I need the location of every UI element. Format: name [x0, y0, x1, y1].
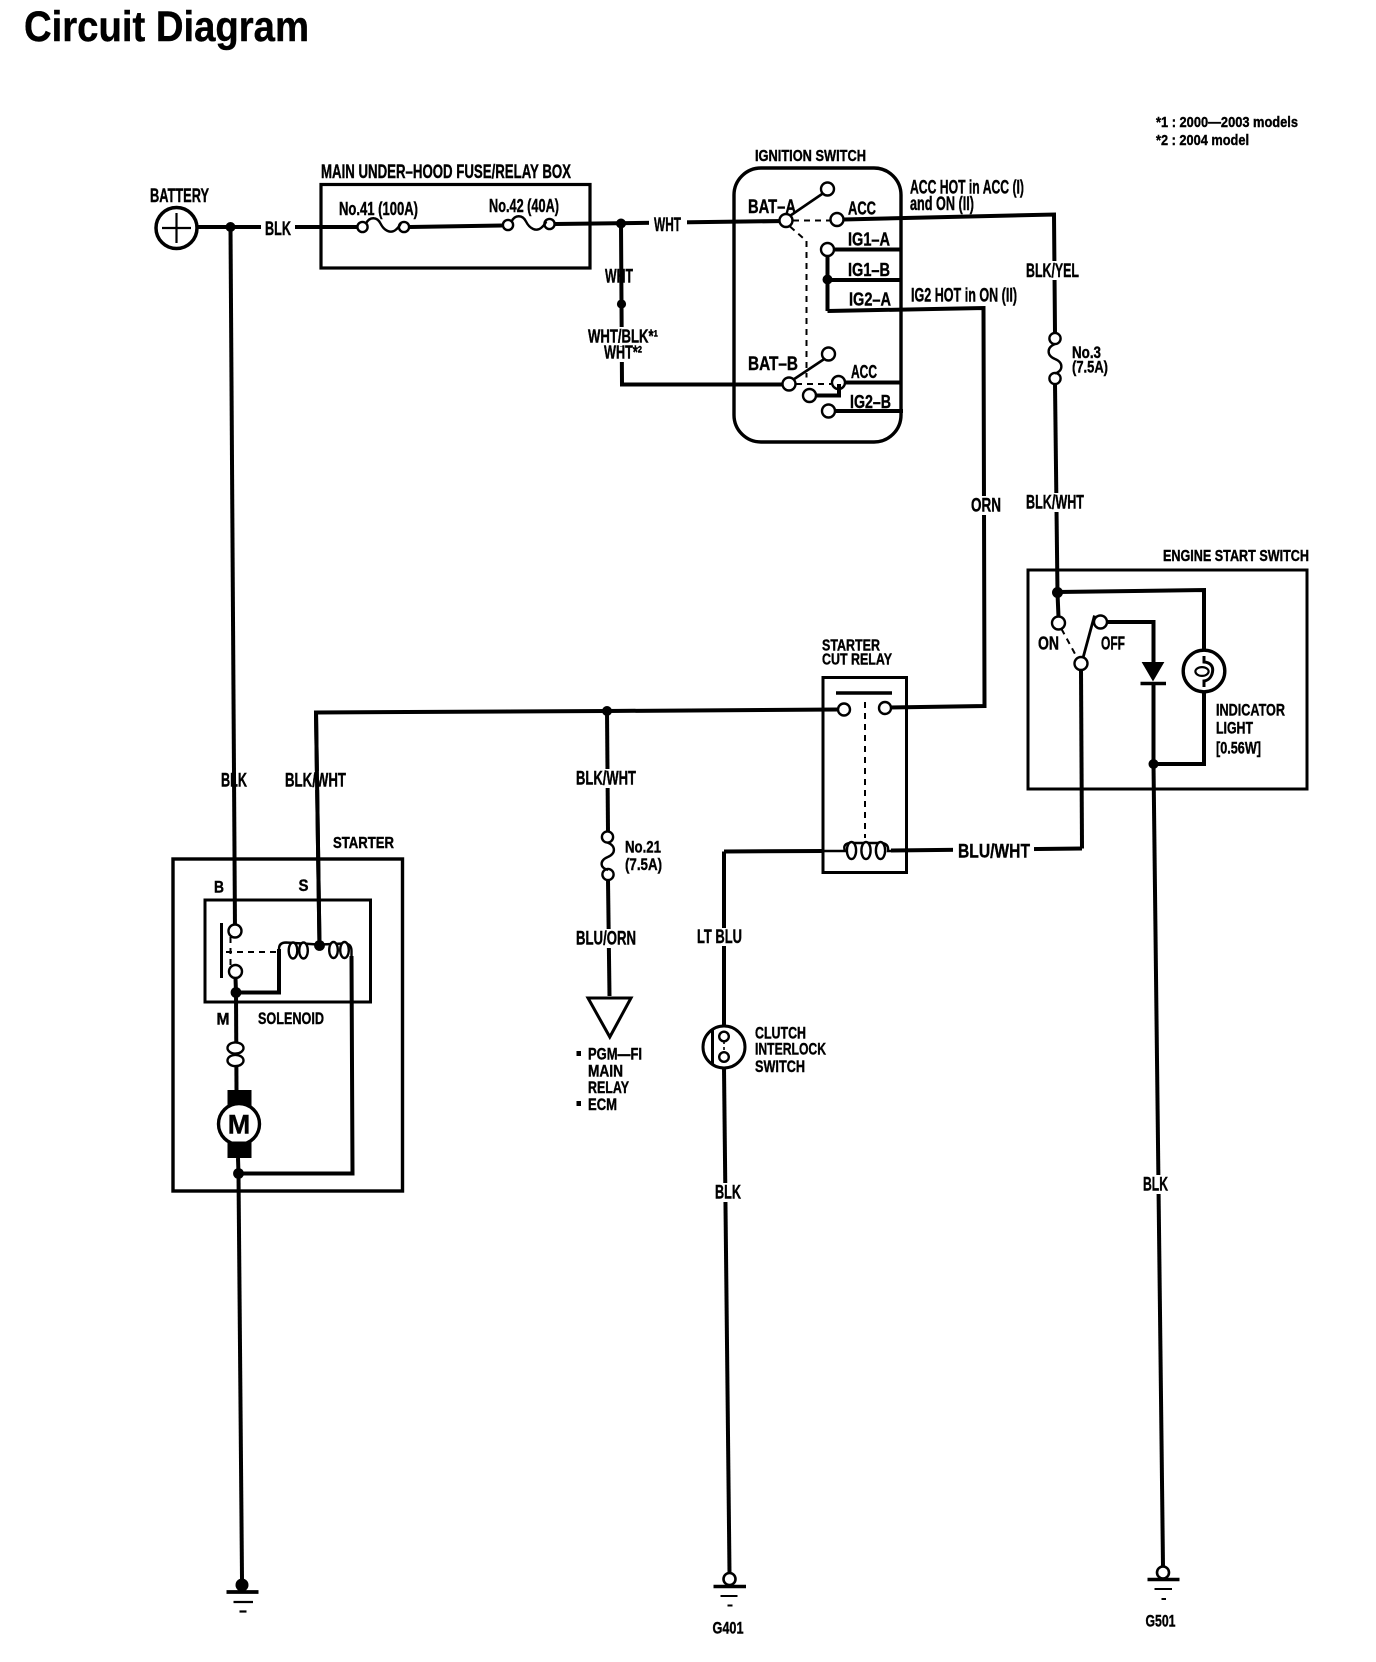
solenoid plunger dashed link: [226, 951, 280, 953]
relay link dashed: [864, 702, 866, 838]
svg-text:B: B: [214, 878, 224, 897]
wire label LT BLU: [692, 928, 748, 946]
motor lead coil: [228, 1042, 244, 1066]
svg-text:IGNITION SWITCH: IGNITION SWITCH: [755, 148, 866, 165]
contact IG2-B: [822, 405, 835, 418]
solenoid hold-in coil: [321, 942, 352, 958]
bullet for PGM-FI: [577, 1051, 582, 1056]
wire label BLK (right): [1138, 1175, 1172, 1194]
node battery junction: [226, 222, 236, 232]
svg-text:BLK/WHT: BLK/WHT: [576, 769, 636, 790]
clutch interlock switch: [703, 1026, 745, 1068]
wire relay coil to BLU/WHT: [891, 849, 1082, 851]
solenoid box: [205, 900, 371, 1002]
node WHT junction: [616, 219, 626, 229]
wire label BLK (middle): [710, 1183, 745, 1202]
wire BLK to G501: [1154, 764, 1164, 1567]
svg-text:No.41 (100A): No.41 (100A): [339, 199, 418, 219]
svg-text:INTERLOCK: INTERLOCK: [755, 1040, 827, 1059]
wire label WHT (main): [649, 215, 687, 234]
svg-text:BLK/YEL: BLK/YEL: [1026, 261, 1079, 282]
wire relay coil to LT BLU: [724, 849, 823, 854]
svg-text:SWITCH: SWITCH: [755, 1057, 805, 1076]
wire label BLK/WHT (right): [1021, 493, 1087, 512]
wire between fuses: [410, 226, 502, 228]
contact ACC (B): [832, 376, 845, 389]
wire brush to bottom junction: [236, 1158, 241, 1174]
svg-text:ACC: ACC: [851, 362, 877, 382]
svg-text:[0.56W]: [0.56W]: [1216, 739, 1261, 758]
wire label WHT/BLK*1: [583, 327, 661, 346]
splice connector on WHT wire: [617, 299, 626, 308]
node IG1-B junction: [823, 275, 833, 285]
battery: [156, 208, 197, 249]
svg-text:ACC: ACC: [848, 199, 876, 219]
svg-text:WHT*²: WHT*²: [604, 343, 642, 363]
svg-text:BLU/ORN: BLU/ORN: [576, 929, 636, 950]
svg-text:BLU/WHT: BLU/WHT: [958, 842, 1030, 863]
wire OFF contact to diode: [1107, 622, 1154, 662]
svg-text:No.42 (40A): No.42 (40A): [489, 196, 559, 216]
svg-text:G401: G401: [713, 1619, 744, 1638]
wire ACC output to BLK/YEL branch: [844, 215, 1056, 334]
wire BLK/WHT horizontal (starter S to relay): [316, 710, 838, 947]
wire starter to ground: [239, 1174, 243, 1580]
wire IG1-B: [828, 278, 902, 282]
svg-text:SOLENOID: SOLENOID: [258, 1009, 324, 1028]
svg-text:IG2–A: IG2–A: [849, 290, 891, 310]
svg-text:*2 : 2004 model: *2 : 2004 model: [1156, 132, 1249, 149]
wire ACC-B: [845, 381, 901, 385]
wire lower contact to M node: [234, 978, 239, 993]
wire IG2-A to ORN branch: [828, 308, 985, 708]
starter motor M: [219, 1104, 260, 1145]
node BLK/WHT junction: [602, 706, 612, 716]
svg-text:BLK/WHT: BLK/WHT: [1026, 493, 1084, 514]
wire junction to ON contact: [1058, 593, 1059, 617]
svg-text:G501: G501: [1146, 1612, 1176, 1631]
relay coil: [823, 842, 891, 859]
wire label BLU/WHT: [953, 842, 1034, 861]
wire IG1-A: [834, 248, 901, 252]
svg-text:BAT–A: BAT–A: [748, 197, 796, 218]
svg-text:M: M: [217, 1010, 230, 1029]
svg-text:IG1–A: IG1–A: [848, 230, 890, 250]
fuse No.41 (100A): [357, 218, 409, 232]
wire BLK/WHT to fuse No.21: [607, 711, 608, 832]
wire battery to fuse No.41: [197, 225, 357, 229]
wire elbow to pull-in coil: [236, 949, 279, 993]
motor brush bottom: [228, 1142, 252, 1159]
contact IG1-A: [821, 243, 834, 256]
ground (starter): [227, 1579, 259, 1612]
relay contacts: [838, 704, 850, 716]
diode D1: [1141, 663, 1167, 684]
svg-text:WHT: WHT: [654, 215, 681, 236]
wire label BLK/YEL: [1022, 261, 1082, 280]
svg-text:OFF: OFF: [1101, 634, 1125, 654]
svg-text:BLK: BLK: [1143, 1175, 1168, 1196]
indicator light bulb: [1183, 650, 1225, 692]
wire lamp bottom to junction: [1154, 687, 1205, 764]
contact BAT-B: [794, 359, 826, 380]
relay armature bar: [836, 691, 892, 694]
wire label ORN: [966, 496, 1005, 515]
solenoid contact B: [229, 925, 242, 938]
wire IG1 vertical: [826, 255, 830, 311]
svg-text:IG1–B: IG1–B: [848, 260, 890, 280]
solenoid contact lower: [229, 965, 242, 978]
fuse No.21 (7.5A): [602, 831, 614, 880]
starter box: [173, 859, 403, 1191]
wire M to motor: [234, 993, 239, 1091]
wire IG2-B: [835, 409, 903, 413]
svg-text:WHT: WHT: [605, 267, 633, 288]
svg-text:M: M: [228, 1110, 251, 1140]
svg-text:ENGINE START SWITCH: ENGINE START SWITCH: [1163, 548, 1309, 565]
svg-text:(7.5A): (7.5A): [1072, 358, 1108, 377]
svg-text:BLK: BLK: [265, 219, 291, 240]
ignition switch box: [734, 168, 901, 442]
fuse No.42 (40A): [503, 216, 555, 230]
fuse No.3 (7.5A): [1049, 333, 1062, 384]
ignition switch arm A (mechanical link dashes): [793, 220, 830, 222]
svg-text:STARTER: STARTER: [333, 835, 394, 852]
svg-text:ON: ON: [1038, 634, 1059, 654]
svg-text:IG2–B: IG2–B: [850, 392, 891, 412]
solenoid contact dashed link vertical: [230, 937, 232, 966]
wire BLK to G401: [724, 1068, 730, 1573]
svg-text:LIGHT: LIGHT: [1216, 719, 1253, 738]
node engine switch junction: [1052, 587, 1063, 598]
wire motor return path: [239, 956, 353, 1174]
wire WHT vertical to BAT-B: [621, 224, 789, 385]
node M junction: [231, 987, 242, 998]
svg-text:and ON (II): and ON (II): [910, 194, 974, 215]
wire label WHT*2: [599, 347, 646, 363]
contact NC (B) with elbow: [816, 384, 839, 396]
svg-text:(7.5A): (7.5A): [625, 855, 662, 874]
svg-text:BAT–B: BAT–B: [748, 354, 798, 375]
svg-text:ORN: ORN: [971, 496, 1001, 517]
switch ON/OFF contacts: [1083, 616, 1095, 659]
solenoid pull-in coil: [279, 943, 318, 959]
wire label BLU/ORN: [571, 929, 640, 948]
wire fuse No.42 to ignition BAT-A: [556, 221, 787, 224]
wire label BLK/WHT (left): [280, 771, 349, 790]
svg-text:S: S: [299, 876, 309, 895]
main under-hood fuse/relay box: [321, 185, 590, 269]
motor brush top: [228, 1090, 252, 1107]
wire switch pivot down to BLU/WHT: [1081, 670, 1082, 849]
wire LT BLU to clutch switch: [722, 852, 726, 1027]
wire BLK battery to starter B: [231, 227, 236, 931]
solenoid contact plate: [220, 923, 223, 978]
ground G501: [1148, 1567, 1180, 1600]
svg-text:IG2 HOT in ON (II): IG2 HOT in ON (II): [911, 286, 1017, 307]
engine start switch box: [1028, 570, 1307, 789]
svg-text:*1 : 2000—2003 models: *1 : 2000—2003 models: [1156, 114, 1298, 131]
svg-text:BATTERY: BATTERY: [150, 186, 209, 207]
svg-text:ECM: ECM: [588, 1095, 617, 1114]
wire label BLK (left): [216, 771, 250, 790]
wire BLK/WHT into engine start switch: [1055, 384, 1058, 593]
node motor bottom junction: [233, 1168, 244, 1179]
contact BAT-A: [791, 193, 824, 216]
svg-text:MAIN UNDER–HOOD FUSE/RELAY BOX: MAIN UNDER–HOOD FUSE/RELAY BOX: [321, 162, 571, 183]
svg-text:No.21: No.21: [625, 838, 661, 857]
wire BLU/ORN to arrow: [608, 880, 610, 996]
contact ACC (A): [831, 213, 844, 226]
bullet for ECM: [577, 1101, 582, 1106]
ground G401: [714, 1573, 747, 1606]
svg-text:LT BLU: LT BLU: [697, 927, 742, 948]
wire diode to lower junction: [1152, 684, 1156, 765]
starter cut relay box: [823, 678, 907, 873]
svg-text:CUT RELAY: CUT RELAY: [822, 652, 892, 669]
wire label BLK/WHT (middle): [571, 769, 640, 788]
arrow to PGM-FI main relay / ECM: [588, 998, 631, 1037]
wire S into solenoid: [316, 713, 320, 947]
node S junction: [314, 940, 325, 951]
svg-text:Circuit Diagram: Circuit Diagram: [24, 3, 309, 51]
node diode/lamp junction: [1149, 759, 1159, 769]
wire label BLK (battery): [261, 219, 295, 238]
wire junction to lamp: [1058, 590, 1205, 662]
svg-text:BLK: BLK: [715, 1183, 741, 1204]
svg-text:INDICATOR: INDICATOR: [1216, 701, 1285, 720]
